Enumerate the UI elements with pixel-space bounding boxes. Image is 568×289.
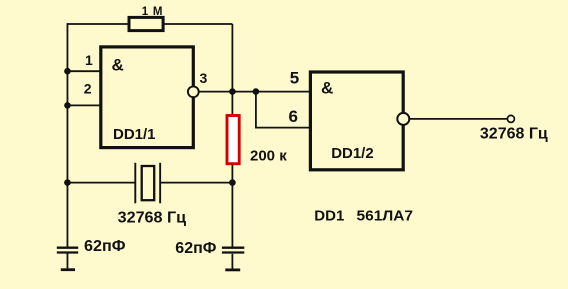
svg-text:32768 Гц: 32768 Гц (118, 210, 187, 227)
junction dot output-R2 (229, 88, 236, 95)
capacitor C1 top plate (57, 247, 78, 249)
capacitor C2 top plate (222, 247, 244, 249)
junction dot output-pin6 branch (253, 88, 260, 95)
junction dot rail-pin2 (64, 102, 71, 109)
capacitor C2 bottom plate (222, 251, 244, 253)
gate DD1/1 body (101, 47, 194, 148)
svg-text:62пФ: 62пФ (175, 240, 216, 257)
ground symbol right (225, 268, 240, 271)
svg-text:DD1/2: DD1/2 (331, 145, 374, 162)
wire pin1 input (67, 70, 100, 72)
svg-text:62пФ: 62пФ (84, 238, 126, 255)
wire pin6 branch (256, 92, 311, 128)
svg-text:2: 2 (84, 80, 92, 96)
svg-text:&: & (321, 79, 333, 98)
svg-text:&: & (112, 55, 124, 74)
junction dot rail-crystal row (64, 179, 71, 186)
capacitor C1 bottom plate (57, 251, 78, 253)
crystal ZQ1 left plate (134, 163, 136, 204)
gate DD1/1 output bubble (188, 86, 199, 97)
wire top feedback rail (67, 23, 232, 25)
svg-text:3: 3 (200, 70, 208, 86)
wire left cap to ground (66, 254, 68, 269)
wire left rail vertical (66, 23, 68, 247)
wire crystal row right (161, 182, 232, 184)
gate DD1/2 body (310, 72, 403, 170)
svg-text:5: 5 (290, 69, 299, 88)
svg-text:200 к: 200 к (250, 148, 287, 165)
svg-text:DD1/1: DD1/1 (113, 126, 156, 143)
output terminal circle (507, 115, 514, 122)
junction dot rail-pin1 (64, 68, 71, 75)
gate DD1/2 output bubble (397, 113, 409, 125)
crystal ZQ1 body (142, 166, 155, 200)
junction dot crystal row-R2 bottom (229, 179, 236, 186)
svg-text:DD1: DD1 (314, 208, 344, 225)
wire right cap to ground (231, 254, 233, 269)
wire DD1/2 output (409, 118, 507, 120)
wire right vertical feedback to crystal row (231, 24, 233, 247)
resistor R1 1M body (129, 17, 163, 30)
svg-text:6: 6 (289, 107, 298, 126)
svg-text:32768 Гц: 32768 Гц (480, 126, 548, 143)
crystal ZQ1 right plate (159, 163, 161, 204)
ground symbol left (61, 268, 75, 271)
svg-text:1: 1 (85, 52, 93, 68)
wire pin2 input (67, 104, 100, 106)
wire crystal row left (67, 182, 134, 184)
svg-text:561ЛА7: 561ЛА7 (357, 208, 414, 225)
resistor R2 200k body (red) (227, 116, 239, 164)
svg-text:1 М: 1 М (142, 6, 164, 18)
wire DD1/1 output to pin5 (199, 91, 311, 93)
